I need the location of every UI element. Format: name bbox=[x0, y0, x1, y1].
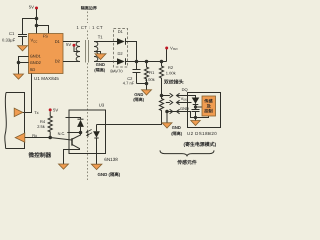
svg-text:GND1: GND1 bbox=[30, 54, 42, 59]
wire cap to ground bbox=[195, 112, 197, 121]
diode D2 bbox=[117, 58, 125, 64]
wire GND1 bbox=[19, 57, 29, 75]
wire to FS pin bbox=[37, 26, 49, 35]
wire VISO to rail bbox=[166, 49, 168, 61]
node junction FS branch bbox=[35, 24, 39, 28]
svg-text:5V: 5V bbox=[66, 42, 71, 47]
svg-text:C1: C1 bbox=[9, 31, 15, 36]
transformer T1 primary winding bbox=[76, 42, 80, 62]
node junction C2/R1 gnd bbox=[145, 82, 149, 86]
node junction GND2 bbox=[17, 61, 21, 65]
svg-text:微控制器: 微控制器 bbox=[28, 152, 52, 159]
wire center tap bbox=[74, 46, 80, 51]
connector VDD (twisted pair) bbox=[170, 100, 180, 104]
wire GND to ground symbol bbox=[166, 112, 168, 123]
svg-text:SD: SD bbox=[30, 67, 36, 72]
wire D1 to T1 primary bbox=[63, 41, 80, 43]
dashed box BAV70 bbox=[114, 29, 128, 68]
node VISO bbox=[165, 47, 168, 50]
transistor (U3 output) bbox=[64, 133, 81, 165]
svg-text:6N138: 6N138 bbox=[104, 157, 118, 162]
svg-text:GND: GND bbox=[96, 62, 105, 67]
ground (U3 LED, isolated) bbox=[91, 164, 102, 169]
wire D1 cathode to rail bbox=[126, 42, 137, 62]
svg-text:GND: GND bbox=[172, 125, 181, 130]
svg-text:5V: 5V bbox=[29, 4, 34, 9]
ground (U1 GND1/GND2) bbox=[14, 74, 24, 79]
svg-text:(隔离): (隔离) bbox=[94, 68, 106, 73]
svg-text:1.00k: 1.00k bbox=[145, 77, 155, 82]
svg-text:GND2: GND2 bbox=[30, 60, 42, 65]
wire secondary center tap bbox=[94, 52, 101, 54]
svg-text:R1: R1 bbox=[149, 70, 155, 75]
wire VDD right bbox=[177, 102, 188, 104]
node junction DQ bbox=[160, 94, 164, 98]
svg-text:Tx: Tx bbox=[34, 110, 38, 115]
sensor and control block bbox=[202, 96, 216, 116]
svg-text:BAV70: BAV70 bbox=[110, 68, 123, 73]
svg-text:0.33μF: 0.33μF bbox=[2, 38, 16, 43]
svg-text:1.00k: 1.00k bbox=[166, 70, 176, 75]
node junction R1 bbox=[145, 60, 149, 64]
wire VDD left stub bbox=[166, 102, 170, 104]
wire VDD stub inside U2 bbox=[188, 102, 192, 104]
wire Rx line bbox=[25, 138, 72, 141]
wire secondary bottom to D2 bbox=[94, 61, 117, 63]
photodiode (U3) bbox=[66, 118, 81, 120]
node junction photodiode/NC bbox=[79, 131, 83, 135]
wire C1 to ground bbox=[22, 37, 24, 46]
isolation boundary dashed line bbox=[87, 12, 89, 181]
node junction GND connector bbox=[165, 110, 169, 114]
buffer Tx bbox=[14, 108, 23, 116]
ground (T1 secondary, isolated) bbox=[95, 54, 106, 60]
svg-text:FS: FS bbox=[43, 34, 48, 39]
node junction U2 internal supply bbox=[194, 105, 197, 108]
wire secondary top to D1 bbox=[94, 41, 117, 43]
svg-text:VISO: VISO bbox=[170, 45, 178, 51]
node junction D1/C2 bbox=[135, 60, 139, 64]
capacitor (U2 internal) bbox=[192, 110, 200, 112]
svg-text:传感元件: 传感元件 bbox=[176, 159, 197, 166]
svg-text:双绞接头: 双绞接头 bbox=[163, 78, 184, 85]
svg-text:5V: 5V bbox=[53, 107, 58, 112]
svg-text:隔离边界: 隔离边界 bbox=[81, 5, 98, 10]
wire SD down to Tx bbox=[23, 74, 32, 113]
svg-text:控制: 控制 bbox=[204, 109, 212, 114]
capacitor C1 bbox=[18, 35, 27, 37]
connector DQ (twisted pair) bbox=[170, 93, 180, 97]
ground (connector, isolated) bbox=[162, 123, 172, 128]
wire diode to cap bbox=[195, 104, 197, 110]
svg-text:D1: D1 bbox=[55, 39, 61, 44]
node junction C1 branch bbox=[35, 17, 39, 21]
svg-text:N.C.: N.C. bbox=[58, 131, 66, 136]
svg-text:(隔离): (隔离) bbox=[171, 131, 183, 136]
wire DQ inside U2 bbox=[188, 96, 196, 98]
wire to sensor block bbox=[196, 106, 203, 108]
ground (U3 emitter, isolated) bbox=[59, 164, 69, 169]
node junction R2 bbox=[160, 60, 164, 64]
svg-text:2.5k: 2.5k bbox=[37, 124, 45, 129]
resistor R1 bbox=[144, 62, 148, 84]
ground (C1) bbox=[18, 46, 28, 51]
node junction U2 gnd bbox=[194, 116, 197, 119]
svg-text:(寄生电源模式): (寄生电源模式) bbox=[184, 141, 217, 148]
transformer T1 core bbox=[86, 40, 89, 63]
wire 5V to U1 VCC bbox=[36, 9, 38, 34]
svg-text:VDD: VDD bbox=[181, 96, 188, 102]
svg-text:DQ: DQ bbox=[182, 87, 188, 92]
wire DQ left bbox=[162, 95, 170, 97]
svg-text:U2 DS18B20: U2 DS18B20 bbox=[187, 131, 217, 136]
buffer Rx bbox=[15, 133, 25, 142]
optocoupler U3 box bbox=[69, 110, 106, 154]
svg-text:T1: T1 bbox=[98, 35, 104, 40]
diode (U2 internal) bbox=[192, 98, 200, 104]
svg-text:GND (隔离): GND (隔离) bbox=[98, 172, 121, 177]
svg-text:(隔离): (隔离) bbox=[133, 97, 145, 102]
wire C2/R1 to ground bbox=[137, 84, 147, 90]
wire N.C. stub bbox=[67, 132, 80, 134]
svg-text:D2: D2 bbox=[55, 59, 61, 64]
diode D1 bbox=[117, 38, 125, 44]
ground (C2/R1, isolated) bbox=[142, 90, 152, 95]
wire GND2 bbox=[19, 62, 29, 64]
wire GND right bbox=[167, 111, 188, 113]
svg-text:U3: U3 bbox=[99, 103, 105, 108]
op-amp U1 MAX845 body bbox=[29, 34, 64, 74]
wire DQ right bbox=[177, 95, 188, 97]
node junction R4/Rx bbox=[48, 136, 52, 140]
wire to C1 bbox=[23, 19, 37, 35]
wire GND pin inside U2 bbox=[188, 112, 209, 118]
resistor (LED series, unlabeled) bbox=[97, 96, 164, 125]
IC U2 DS18B20 body bbox=[188, 93, 221, 128]
LED (U3 input side) bbox=[96, 125, 98, 132]
capacitor C2 bbox=[133, 62, 141, 84]
svg-text:1 CT : 1 CT: 1 CT : 1 CT bbox=[77, 25, 104, 30]
svg-text:U1 MAX845: U1 MAX845 bbox=[34, 76, 59, 81]
microcontroller box bbox=[5, 93, 25, 149]
svg-text:4.7 nF: 4.7 nF bbox=[123, 81, 135, 86]
connector GND (twisted pair) bbox=[170, 109, 180, 113]
resistor R4 bbox=[48, 111, 52, 137]
svg-text:D2: D2 bbox=[118, 51, 124, 56]
wire D2 to T1 primary bbox=[63, 61, 80, 63]
node 5V (R4) bbox=[49, 108, 52, 111]
brace sensor element bbox=[160, 150, 214, 156]
resistor R2 bbox=[159, 62, 163, 96]
wire VISO rail bbox=[126, 61, 167, 63]
transformer T1 secondary winding bbox=[94, 42, 98, 62]
ground (U2 internal) bbox=[191, 121, 200, 126]
svg-text:D1: D1 bbox=[118, 29, 124, 34]
svg-text:VCC: VCC bbox=[31, 38, 38, 44]
light arrows bbox=[86, 129, 92, 136]
